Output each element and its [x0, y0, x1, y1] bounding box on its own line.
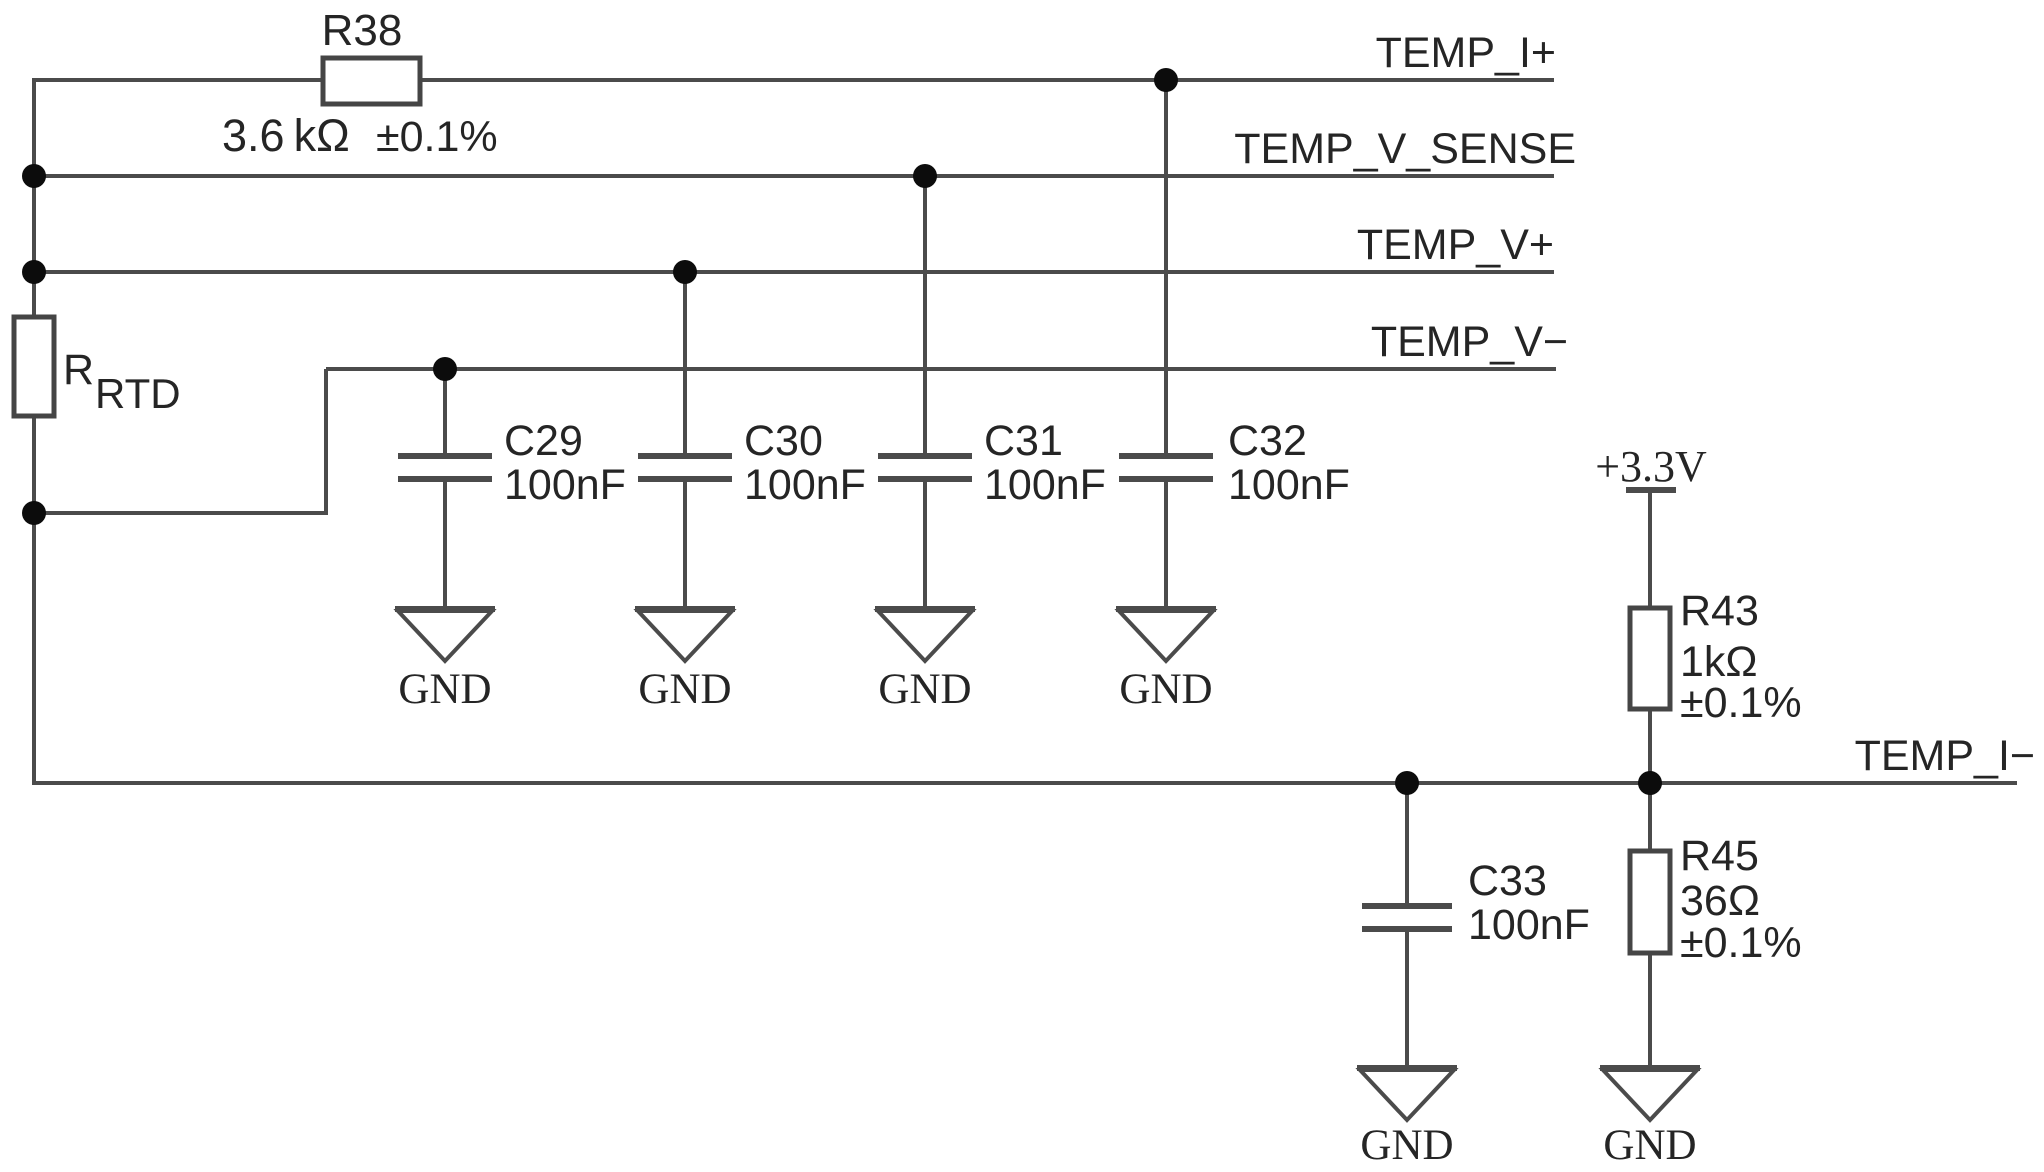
wire net TEMP_I+	[32, 78, 1554, 82]
svg-text:TEMP_V+: TEMP_V+	[1357, 221, 1554, 269]
capacitor C29	[398, 456, 492, 479]
node TEMP_V_SENSE left junction	[22, 164, 46, 188]
wire net TEMP_V_SENSE	[32, 174, 1554, 178]
label C30	[744, 417, 866, 509]
capacitor C32	[1119, 456, 1213, 479]
resistor R_RTD	[14, 317, 54, 416]
ground GND C29	[395, 609, 495, 713]
wire left bus vertical	[32, 80, 36, 783]
svg-text:R45: R45	[1680, 832, 1759, 880]
node C33 tap on TEMP_I-	[1395, 771, 1419, 795]
wire net TEMP_V-	[326, 367, 1556, 371]
label R_RTD	[63, 346, 181, 417]
node TEMP_V+ left junction	[22, 260, 46, 284]
resistor R45	[1630, 851, 1670, 953]
node C31 tap on TEMP_V_SENSE	[913, 164, 937, 188]
label R43 1kΩ ±0.1%	[1680, 587, 1802, 727]
label C33	[1468, 857, 1590, 949]
wire C31 column	[923, 176, 927, 609]
svg-text:GND: GND	[1119, 666, 1212, 713]
svg-text:C33: C33	[1468, 857, 1547, 905]
svg-text:C31: C31	[984, 417, 1063, 465]
svg-text:TEMP_I−: TEMP_I−	[1855, 732, 2035, 780]
svg-text:R38: R38	[322, 6, 403, 55]
ground GND C33	[1357, 1068, 1457, 1169]
svg-text:100nF: 100nF	[744, 461, 866, 509]
capacitor C30	[638, 456, 732, 479]
svg-text:TEMP_V−: TEMP_V−	[1371, 318, 1568, 366]
svg-text:100nF: 100nF	[504, 461, 626, 509]
resistor R43	[1630, 608, 1670, 709]
node C29 tap on TEMP_V-	[433, 357, 457, 381]
svg-text:36Ω: 36Ω	[1680, 877, 1760, 925]
svg-text:C29: C29	[504, 417, 583, 465]
svg-text:R43: R43	[1680, 587, 1759, 635]
svg-text:+3.3V: +3.3V	[1595, 442, 1707, 491]
wire R43 to TEMP_I-	[1648, 709, 1652, 783]
svg-text:GND: GND	[638, 666, 731, 713]
svg-text:GND: GND	[1360, 1122, 1453, 1169]
svg-text:TEMP_V_SENSE: TEMP_V_SENSE	[1234, 125, 1576, 173]
svg-text:C32: C32	[1228, 417, 1307, 465]
label C29	[504, 417, 626, 509]
ground GND R45	[1600, 1068, 1700, 1169]
svg-text:TEMP_I+: TEMP_I+	[1376, 29, 1556, 77]
svg-text:RTD: RTD	[95, 370, 181, 417]
svg-text:±0.1%: ±0.1%	[376, 113, 498, 161]
ground GND C31	[875, 609, 975, 713]
svg-text:GND: GND	[1603, 1122, 1696, 1169]
wire net TEMP_V+	[32, 270, 1554, 274]
label C32	[1228, 417, 1350, 509]
node R43/R45 tap on TEMP_I-	[1638, 771, 1662, 795]
svg-text:GND: GND	[398, 666, 491, 713]
node RTD bottom junction	[22, 501, 46, 525]
resistor R38	[323, 58, 420, 104]
svg-text:±0.1%: ±0.1%	[1680, 679, 1802, 727]
svg-text:R: R	[63, 346, 94, 394]
wire jog from RTD bottom to TEMP_V-	[34, 369, 326, 513]
node C30 tap on TEMP_V+	[673, 260, 697, 284]
svg-text:±0.1%: ±0.1%	[1680, 919, 1802, 967]
wire C33 column	[1405, 783, 1409, 1068]
svg-text:3.6 kΩ: 3.6 kΩ	[222, 110, 350, 161]
svg-text:100nF: 100nF	[1228, 461, 1350, 509]
svg-text:100nF: 100nF	[1468, 901, 1590, 949]
ground GND C30	[635, 609, 735, 713]
node C32 tap on TEMP_I+	[1154, 68, 1178, 92]
capacitor C31	[878, 456, 972, 479]
svg-text:C30: C30	[744, 417, 823, 465]
wire R45 to GND	[1648, 953, 1652, 1068]
svg-text:GND: GND	[878, 666, 971, 713]
ground GND C32	[1116, 609, 1216, 713]
capacitor C33	[1362, 906, 1452, 929]
wire +3.3V to R43	[1648, 490, 1652, 608]
svg-text:100nF: 100nF	[984, 461, 1106, 509]
wire TEMP_I- to R45	[1648, 783, 1652, 851]
wire C32 column	[1164, 80, 1168, 609]
label R45 36Ω ±0.1%	[1680, 832, 1802, 967]
label C31	[984, 417, 1106, 509]
wire net TEMP_I-	[32, 781, 2017, 785]
wire C30 column	[683, 272, 687, 609]
power +3.3V	[1595, 442, 1707, 491]
wire C29 column	[443, 369, 447, 609]
